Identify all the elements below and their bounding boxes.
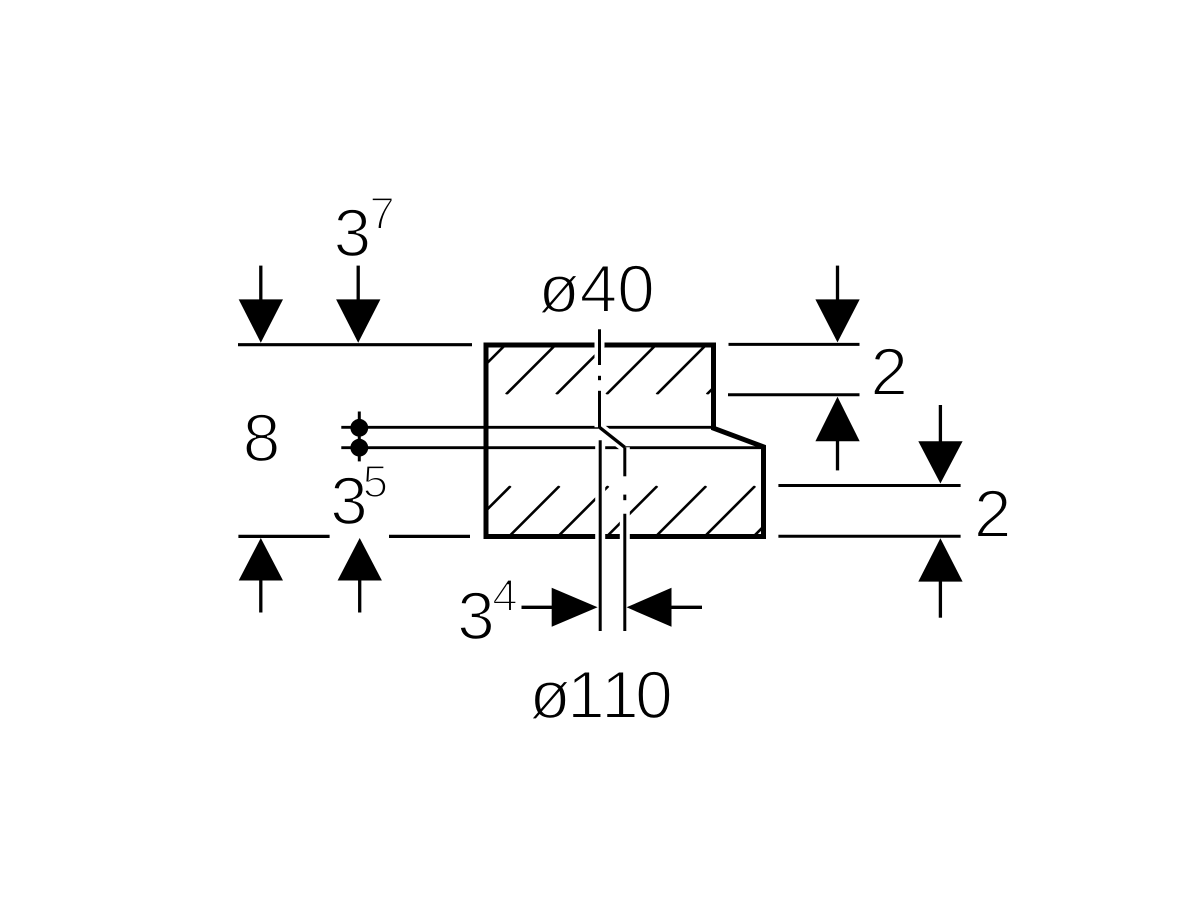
label diameter 40 xyxy=(540,265,652,313)
dim 3^5: extension line bottom-left xyxy=(238,535,329,538)
white casings for centerlines xyxy=(600,330,625,631)
dim 3^4 bottom center xyxy=(522,588,703,627)
label diameter 110 xyxy=(531,671,670,719)
arrow down xyxy=(815,266,859,343)
dim arrow up inner xyxy=(338,538,382,613)
centerline jog xyxy=(600,427,625,447)
centerline lower (dash-dot) xyxy=(623,447,626,631)
dim 8: dot terminators xyxy=(350,412,368,462)
label 2 upper xyxy=(874,348,905,395)
label 3^5 xyxy=(333,477,365,525)
dim arrow down inner xyxy=(336,266,380,343)
dim arrow up outer xyxy=(239,538,283,613)
label 2 lower xyxy=(977,490,1008,537)
label 3^7 xyxy=(336,209,368,257)
dim arrow down outer xyxy=(239,266,283,343)
dim 2 upper right: extension lines xyxy=(729,343,860,346)
hatching upper wall xyxy=(456,346,755,394)
centerline upper (dash-dot) xyxy=(598,329,601,428)
dim 2 lower right: extension lines xyxy=(778,484,960,487)
body outline xyxy=(486,345,764,537)
arrow down xyxy=(918,405,962,484)
label 3^4 xyxy=(460,592,492,640)
hatching lower wall xyxy=(462,486,804,535)
extension line for 3^4 (left vertical) xyxy=(599,440,602,631)
inner bore line upper xyxy=(341,426,713,429)
label 8 xyxy=(246,414,278,462)
arrow up xyxy=(815,397,859,471)
inner bore line lower xyxy=(341,446,762,449)
arrow up xyxy=(918,538,962,618)
dim 3^7: extension line top-left xyxy=(238,343,472,346)
